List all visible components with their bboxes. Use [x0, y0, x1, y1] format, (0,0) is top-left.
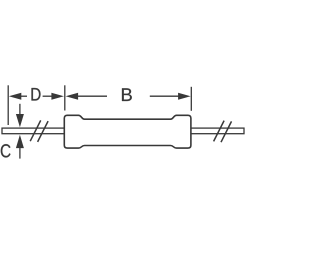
- extension line left (D datum): [7, 85, 9, 125]
- dimension B arrow right: [150, 93, 191, 100]
- dimension C arrow down (above wire): [16, 104, 24, 128]
- break mark right lead: [214, 121, 232, 143]
- extension line body left edge: [64, 85, 66, 110]
- dimension C arrow up (below wire): [16, 135, 24, 159]
- break mark left lead: [30, 120, 48, 141]
- dimension B arrow left: [66, 93, 107, 100]
- wire left lead: [2, 128, 65, 134]
- dimension D arrow right: [43, 93, 64, 100]
- label D: [32, 88, 41, 101]
- resistor body: [64, 115, 191, 148]
- label C: [1, 144, 11, 157]
- dimension D arrow left: [9, 93, 27, 100]
- label B: [122, 88, 132, 101]
- wire right lead: [191, 128, 245, 134]
- extension line body right edge: [190, 87, 192, 111]
